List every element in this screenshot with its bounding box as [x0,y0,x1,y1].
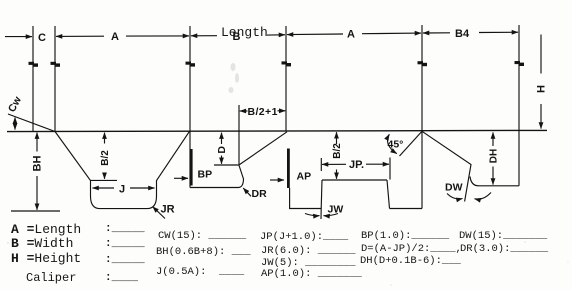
svg-text:DR: DR [252,188,268,200]
dimension Cw arrow [14,118,16,130]
dimension B4 panel [423,31,518,34]
45 degree bevel cut [400,131,423,156]
dimension A right panel [287,33,421,35]
dimension B/2 right [336,132,338,179]
dimension DH [492,132,494,184]
extension line x=33 [32,26,34,132]
svg-text:BP: BP [198,169,213,181]
dimension DW arrows [447,193,491,200]
slot right edge [421,131,423,209]
svg-text:B/2: B/2 [332,143,343,159]
BP heavy cut bar [190,149,193,186]
crease tick x=422 [418,61,428,66]
JW slit [321,180,322,219]
dimension C leader [5,36,32,38]
glue flap bevel Cw [8,114,55,132]
svg-text:JW: JW [328,204,344,216]
D flap bottom and DR corner [190,165,244,188]
extension line x=55 [54,26,56,132]
slot edge right of AP [290,188,321,209]
dimension JP [321,158,390,180]
DW flap slant [422,131,471,201]
svg-text:AP: AP [297,171,312,183]
J slot outline [55,131,190,208]
crease tick x=55 [51,62,61,67]
svg-text:Cw: Cw [6,94,24,114]
J slot shoulder extension [91,179,118,181]
dimension B/2 left [104,133,106,179]
svg-text:B/2+1: B/2+1 [248,106,278,118]
crease tick x=519 [515,61,525,66]
dimension 45 arc [388,134,397,153]
dimension B/2+1 [240,110,285,112]
svg-text:DH: DH [489,149,500,163]
tab top [322,179,387,181]
svg-text:BH: BH [32,156,44,172]
dimension BP arrow [174,177,188,179]
dimension JW arrows [305,214,338,216]
scan smudge [7,63,569,286]
dimension D [214,133,239,165]
svg-text:J: J [119,184,125,196]
main score line [7,130,547,131]
dimension BH [36,133,38,210]
dimension H [540,35,542,129]
svg-text:DW: DW [445,182,463,194]
dimension AP arrow [270,179,284,181]
drawing labels [6,28,548,216]
typed legend and parameter table [11,223,81,236]
extension line B/2+1 [238,105,240,165]
crease tick x=286 [282,61,292,66]
dimension A left panel [56,35,189,38]
svg-text:B/2: B/2 [100,150,111,166]
svg-text:45°: 45° [388,139,404,151]
slot bottom right of tab [390,208,423,210]
dimension B panel [191,35,285,36]
title Length [221,26,268,39]
tab right edge [387,180,390,209]
crease tick x=33 [29,62,39,67]
svg-text:B4: B4 [455,28,470,40]
DW flap bottom [470,177,519,186]
extension line x=422 [421,25,423,131]
crease tick x=190 [186,62,196,67]
extension line x=286 [285,26,287,132]
D flap slant [239,132,287,165]
BP slot edge [189,131,191,187]
svg-text:D: D [216,146,228,154]
BH base line [11,210,60,212]
DW flap right edge [518,131,520,186]
extension line x=190 [189,26,191,131]
svg-text:C: C [38,32,46,44]
svg-text:JR: JR [161,204,175,216]
dimension J [93,187,155,189]
extension line x=519 [518,25,520,131]
AP heavy cut bar [287,149,290,189]
svg-text:A: A [347,29,355,41]
svg-text:JP.: JP. [349,159,364,171]
svg-text:A: A [111,31,119,43]
DR leader arrow [243,188,251,196]
JR leader [153,207,165,219]
svg-text:H: H [536,85,548,93]
